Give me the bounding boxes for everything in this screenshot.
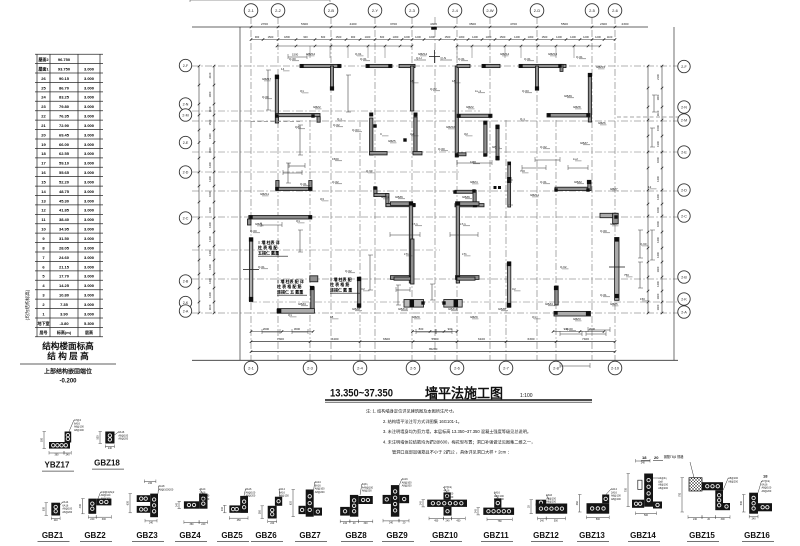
svg-text:1100: 1100 xyxy=(656,110,660,116)
svg-text:柱 表 格 配: 柱 表 格 配 xyxy=(258,244,277,250)
wall z1 xyxy=(374,187,377,197)
floor elevation table xyxy=(35,53,103,55)
svg-text:1900: 1900 xyxy=(208,91,212,97)
axis bubble 2-B xyxy=(324,4,338,18)
svg-text:2-C: 2-C xyxy=(183,216,189,220)
svg-text:2300: 2300 xyxy=(600,22,607,26)
svg-text:72.90: 72.90 xyxy=(59,123,70,128)
svg-text:GBZ9: GBZ9 xyxy=(564,94,572,98)
section GBZ6 xyxy=(268,506,277,519)
svg-text:1400: 1400 xyxy=(514,35,520,39)
svg-text:66.00: 66.00 xyxy=(59,142,70,147)
column blob xyxy=(409,276,413,280)
wall corridor corner V xyxy=(613,213,619,224)
svg-text:3.000: 3.000 xyxy=(84,293,95,298)
svg-text:360: 360 xyxy=(190,523,195,526)
svg-text:2-W: 2-W xyxy=(486,8,494,13)
column blob xyxy=(330,86,334,90)
svg-text:21: 21 xyxy=(41,123,46,128)
column blob xyxy=(414,113,418,117)
svg-text:1100: 1100 xyxy=(607,35,613,39)
svg-text:1400: 1400 xyxy=(208,292,212,298)
tongue cap L xyxy=(410,300,415,307)
svg-text:41.85: 41.85 xyxy=(59,208,70,213)
svg-text:3.000: 3.000 xyxy=(84,245,95,250)
svg-text:GBZ11: GBZ11 xyxy=(530,193,539,197)
svg-text:3.000: 3.000 xyxy=(84,151,95,156)
column blob xyxy=(473,203,477,207)
column blob xyxy=(373,186,376,189)
svg-text:Q-61: Q-61 xyxy=(355,52,362,56)
column blob xyxy=(249,215,252,218)
wall mid stub A xyxy=(370,152,388,155)
svg-text:≡ 墙 柱表 详: ≡ 墙 柱表 详 xyxy=(258,239,280,245)
svg-text:Q-61: Q-61 xyxy=(258,265,265,269)
svg-text:12: 12 xyxy=(648,185,652,189)
section GBZ1 xyxy=(51,503,60,516)
column blob xyxy=(453,190,456,193)
svg-text:1300: 1300 xyxy=(459,35,465,39)
svg-text:240: 240 xyxy=(343,522,348,525)
svg-text:1100: 1100 xyxy=(208,106,212,112)
wall z3r xyxy=(473,190,476,207)
svg-text:结 构 层 高: 结 构 层 高 xyxy=(47,350,89,361)
svg-text:21.15: 21.15 xyxy=(59,264,70,269)
svg-text:34.95: 34.95 xyxy=(59,227,70,232)
svg-text:1200: 1200 xyxy=(415,35,421,39)
svg-text:48.75: 48.75 xyxy=(59,189,70,194)
svg-text:2-1: 2-1 xyxy=(248,365,255,370)
svg-text:900: 900 xyxy=(255,35,260,39)
svg-text:2. 结构墙平法注写方式详图集 16G101-1。: 2. 结构墙平法注写方式详图集 16G101-1。 xyxy=(383,418,462,425)
svg-text:15: 15 xyxy=(41,179,46,184)
axis bubble 2-K xyxy=(678,293,690,305)
top chain 3 partial xyxy=(277,45,412,47)
svg-text:C2: C2 xyxy=(512,287,516,291)
svg-text:500: 500 xyxy=(740,501,743,506)
svg-text:2-1: 2-1 xyxy=(248,8,255,13)
svg-text:1500: 1500 xyxy=(656,125,660,131)
svg-text:GBZ17: GBZ17 xyxy=(262,77,272,81)
svg-text:240: 240 xyxy=(66,454,71,457)
svg-text:1000: 1000 xyxy=(404,35,410,39)
svg-text:1400: 1400 xyxy=(656,176,660,182)
svg-text:GBZ6: GBZ6 xyxy=(462,195,470,199)
GBZ15 upper leader xyxy=(690,462,694,478)
svg-text:2-3: 2-3 xyxy=(307,365,314,370)
wall stub5 xyxy=(560,64,566,67)
svg-text:7400: 7400 xyxy=(582,337,589,341)
svg-text:GBZ6: GBZ6 xyxy=(255,531,277,540)
svg-text:Q1: Q1 xyxy=(296,219,300,223)
svg-text:1300: 1300 xyxy=(528,35,534,39)
wall left-unit west vertical upper xyxy=(275,75,278,123)
svg-text:柱 表 格 筋: 柱 表 格 筋 xyxy=(330,281,349,287)
svg-text:23: 23 xyxy=(41,104,46,109)
column blob xyxy=(409,201,413,205)
svg-text:1400: 1400 xyxy=(570,35,576,39)
svg-text:GBZ12: GBZ12 xyxy=(306,52,316,56)
svg-text:450: 450 xyxy=(456,519,461,522)
svg-text:3.000: 3.000 xyxy=(84,66,95,71)
svg-text:GBZ5: GBZ5 xyxy=(221,531,243,540)
svg-text:柱 表 格 配 筋: 柱 表 格 配 筋 xyxy=(277,283,301,289)
svg-text:屋面2: 屋面2 xyxy=(38,56,49,62)
svg-text:GBZ9: GBZ9 xyxy=(470,315,478,319)
svg-text:GBZ6: GBZ6 xyxy=(395,195,403,199)
svg-text:240: 240 xyxy=(446,519,451,522)
svg-text:52.20: 52.20 xyxy=(59,179,70,184)
svg-text:Α8@200: Α8@200 xyxy=(494,498,504,501)
svg-text:Q1: Q1 xyxy=(288,313,292,317)
svg-text:90.15: 90.15 xyxy=(59,76,70,81)
column blob xyxy=(388,64,391,67)
svg-text:1500: 1500 xyxy=(500,35,506,39)
svg-text:GBZ9: GBZ9 xyxy=(386,531,408,540)
wall Q4 xyxy=(482,64,500,67)
svg-text:连描仁 戴 重: 连描仁 戴 重 xyxy=(330,286,352,292)
svg-text:1400: 1400 xyxy=(208,278,212,284)
svg-text:GBZ16: GBZ16 xyxy=(446,125,456,129)
column blob xyxy=(588,73,592,77)
svg-text:1500: 1500 xyxy=(336,35,342,39)
svg-text:450: 450 xyxy=(237,519,242,522)
svg-text:6600: 6600 xyxy=(383,337,390,341)
column blob xyxy=(495,156,499,160)
svg-text:Q-61: Q-61 xyxy=(576,55,583,59)
wall west exterior xyxy=(249,238,252,302)
section GBZ11 xyxy=(483,508,514,515)
column blob xyxy=(535,86,539,90)
bottom dimension chains xyxy=(251,331,313,333)
axis bubble 2-Y xyxy=(368,4,382,18)
svg-text:2-3: 2-3 xyxy=(409,8,416,13)
svg-text:3.000: 3.000 xyxy=(84,217,95,222)
svg-text:240: 240 xyxy=(752,517,757,520)
svg-text:1400: 1400 xyxy=(656,266,660,272)
svg-text:10.80: 10.80 xyxy=(59,293,70,298)
wall core-right-top vertical xyxy=(455,66,458,157)
svg-text:GBZ7: GBZ7 xyxy=(610,222,618,226)
axis bubble 2-7 xyxy=(499,361,513,375)
svg-text:3.000: 3.000 xyxy=(84,114,95,119)
column blob xyxy=(275,114,278,117)
wall small piece xyxy=(310,276,318,282)
svg-text:Q-61: Q-61 xyxy=(458,57,465,61)
svg-text:Α8@200: Α8@200 xyxy=(62,511,72,514)
section GBZ13 xyxy=(587,503,610,514)
svg-text:GBZ13: GBZ13 xyxy=(579,531,605,540)
svg-text:2700: 2700 xyxy=(261,22,268,26)
wall Q1 top-left xyxy=(300,64,341,67)
column blob xyxy=(456,276,460,280)
svg-text:700: 700 xyxy=(520,169,525,173)
svg-text:GBZ10: GBZ10 xyxy=(398,307,408,311)
svg-text:1400: 1400 xyxy=(656,252,660,258)
column blob xyxy=(457,114,460,117)
interior dims xyxy=(289,165,305,167)
axis bubble 2-A xyxy=(678,306,690,318)
svg-text:1400: 1400 xyxy=(208,222,212,228)
svg-text:Q-62: Q-62 xyxy=(430,87,437,91)
svg-text:1600: 1600 xyxy=(656,207,660,213)
svg-text:层高: 层高 xyxy=(84,329,93,335)
svg-text:500: 500 xyxy=(596,518,601,521)
axis bubble 2-8 xyxy=(549,361,563,375)
svg-text:400: 400 xyxy=(79,504,82,509)
svg-text:钢筋Γ6|4 规格: 钢筋Γ6|4 规格 xyxy=(664,454,685,459)
svg-text:26: 26 xyxy=(41,76,46,81)
svg-text:2-2: 2-2 xyxy=(275,8,282,13)
svg-text:93.750: 93.750 xyxy=(58,66,71,71)
svg-text:6100: 6100 xyxy=(478,337,485,341)
svg-text:1400: 1400 xyxy=(365,35,371,39)
column blob xyxy=(507,303,511,307)
svg-text:Α8@200: Α8@200 xyxy=(362,490,372,493)
svg-text:2100: 2100 xyxy=(208,72,212,78)
svg-text:Q-61: Q-61 xyxy=(524,57,531,61)
svg-text:240: 240 xyxy=(270,522,275,525)
svg-text:1400: 1400 xyxy=(656,194,660,200)
axis bubble 2-C xyxy=(678,210,690,222)
svg-text:2-B: 2-B xyxy=(328,8,335,13)
wall corridor corner H xyxy=(600,213,617,217)
top dimension chain xyxy=(192,26,648,28)
svg-text:7.35: 7.35 xyxy=(60,302,69,307)
wall Q5 T-top xyxy=(519,64,562,67)
svg-text:墙平法施工图: 墙平法施工图 xyxy=(425,385,503,401)
wall z2 xyxy=(374,194,388,197)
column blob xyxy=(586,188,589,191)
svg-text:300: 300 xyxy=(721,518,726,521)
svg-text:2600: 2600 xyxy=(263,327,270,331)
svg-text:38.40: 38.40 xyxy=(59,217,70,222)
svg-text:GBZ16: GBZ16 xyxy=(744,531,770,540)
left dimension chains xyxy=(198,66,200,313)
core wall right xyxy=(456,203,459,283)
svg-text:600: 600 xyxy=(127,501,130,506)
axis bubble 2-B xyxy=(179,275,191,287)
svg-text:LT1: LT1 xyxy=(462,252,467,256)
svg-text:240: 240 xyxy=(90,518,95,521)
wall vertical room divider xyxy=(484,121,487,156)
svg-text:Q-62: Q-62 xyxy=(332,180,339,184)
svg-text:Q-60: Q-60 xyxy=(289,57,296,61)
svg-text:C: C xyxy=(380,132,382,136)
column blob xyxy=(275,75,279,79)
core top stub L xyxy=(391,202,413,206)
svg-text:240: 240 xyxy=(176,502,179,507)
column blob xyxy=(586,311,590,315)
svg-text:1300: 1300 xyxy=(208,133,212,139)
svg-text:GBZ11: GBZ11 xyxy=(260,192,269,196)
svg-text:C2: C2 xyxy=(361,287,365,291)
column blob xyxy=(507,177,511,183)
svg-text:1400: 1400 xyxy=(472,35,478,39)
column blob xyxy=(615,294,619,298)
svg-text:Q2: Q2 xyxy=(464,132,468,136)
svg-text:1600: 1600 xyxy=(656,221,660,227)
wall int vert mid-left xyxy=(358,277,361,307)
svg-text:Q-62: Q-62 xyxy=(333,123,340,127)
wall step xyxy=(317,117,320,123)
svg-text:Q3: Q3 xyxy=(320,197,324,201)
wall stem xyxy=(331,66,334,87)
svg-text:3. 未注明墙身均为剪力墙，本层标高 13.350~37: 3. 未注明墙身均为剪力墙，本层标高 13.350~37.350 混凝土强度等级… xyxy=(383,428,531,435)
svg-text:管洞口底部加强筋且不小于 2鍆12 ，具体详见洞: 管洞口底部加强筋且不小于 2鍆12 ，具体详见洞口大样 + 2cm ： xyxy=(392,449,511,456)
svg-text:14: 14 xyxy=(281,67,285,71)
svg-text:19: 19 xyxy=(41,142,46,147)
column blob xyxy=(547,113,550,116)
svg-text:18: 18 xyxy=(452,79,456,83)
svg-text:Q-60: Q-60 xyxy=(640,242,647,246)
column blob xyxy=(357,304,360,307)
svg-text:300: 300 xyxy=(364,522,369,525)
column blob xyxy=(275,187,279,191)
svg-text:380: 380 xyxy=(259,509,262,514)
svg-text:500: 500 xyxy=(97,435,100,440)
column blob xyxy=(311,114,314,117)
svg-text:3.000: 3.000 xyxy=(84,104,95,109)
axis bubble 2-6 xyxy=(608,4,622,18)
svg-text:240: 240 xyxy=(641,462,646,465)
wall RL bottom xyxy=(554,311,591,316)
svg-text:连描仁 五 戴重: 连描仁 五 戴重 xyxy=(277,288,303,294)
svg-text:Q-60: Q-60 xyxy=(438,147,445,151)
svg-text:Q-60: Q-60 xyxy=(600,229,607,233)
section GBZ8 xyxy=(350,495,358,517)
wall int vert mid-right xyxy=(507,262,510,308)
svg-text:5300: 5300 xyxy=(301,22,308,26)
wall z4r xyxy=(455,204,484,207)
svg-text:7300: 7300 xyxy=(277,337,284,341)
section YBZ17 xyxy=(49,442,70,449)
svg-text:地下室: 地下室 xyxy=(38,320,50,326)
svg-text:1600: 1600 xyxy=(429,35,435,39)
svg-text:20: 20 xyxy=(41,132,46,137)
svg-text:GBZ3: GBZ3 xyxy=(573,317,581,321)
svg-text:4300: 4300 xyxy=(430,22,437,26)
svg-text:Α8@200: Α8@200 xyxy=(246,495,256,498)
svg-text:10: 10 xyxy=(41,227,46,232)
svg-text:3.000: 3.000 xyxy=(84,189,95,194)
column blob xyxy=(366,64,369,67)
svg-text:13.350~37.350: 13.350~37.350 xyxy=(330,388,393,400)
svg-text:1300: 1300 xyxy=(393,35,399,39)
svg-text:-0.200: -0.200 xyxy=(59,379,77,385)
svg-text:Α8@200: Α8@200 xyxy=(74,429,84,432)
column blob xyxy=(249,297,253,301)
axis bubble 2-6 xyxy=(450,361,464,375)
svg-text:2-D: 2-D xyxy=(681,188,687,192)
svg-text:2-F: 2-F xyxy=(681,65,687,69)
svg-text:1100: 1100 xyxy=(208,304,212,310)
svg-text:Q1: Q1 xyxy=(300,89,304,93)
svg-text:3.000: 3.000 xyxy=(84,264,95,269)
svg-text:GBZ4: GBZ4 xyxy=(470,180,478,184)
column blob xyxy=(554,311,557,314)
wall end-down stub xyxy=(248,219,252,225)
svg-text:500: 500 xyxy=(554,519,559,522)
column blob xyxy=(587,180,591,184)
svg-text:240: 240 xyxy=(108,447,113,450)
svg-text:83.25: 83.25 xyxy=(59,95,70,100)
svg-text:20: 20 xyxy=(654,455,659,460)
svg-text:780: 780 xyxy=(498,520,503,523)
svg-text:GBZ8: GBZ8 xyxy=(498,307,506,311)
column blob xyxy=(300,64,303,67)
svg-text:2-7: 2-7 xyxy=(503,365,510,370)
svg-text:2-6: 2-6 xyxy=(612,8,619,13)
axis bubble 2-A xyxy=(179,305,191,317)
wall L-int vertical xyxy=(311,287,314,313)
svg-text:5.300: 5.300 xyxy=(84,321,95,326)
wall east exterior xyxy=(615,238,619,301)
column blob xyxy=(472,189,475,192)
svg-text:2300: 2300 xyxy=(622,22,629,26)
svg-text:LT1: LT1 xyxy=(404,252,409,256)
core bottom stub R xyxy=(456,276,480,280)
svg-text:28.05: 28.05 xyxy=(59,245,70,250)
svg-text:2-D: 2-D xyxy=(183,170,189,174)
svg-text:2-Y: 2-Y xyxy=(372,8,379,13)
svg-text:55.65: 55.65 xyxy=(59,170,70,175)
svg-text:-3.80: -3.80 xyxy=(59,321,69,326)
svg-text:17.70: 17.70 xyxy=(59,274,70,279)
svg-text:Q-63: Q-63 xyxy=(352,128,359,132)
svg-text:GBZ3: GBZ3 xyxy=(298,302,306,306)
svg-text:1500: 1500 xyxy=(445,35,451,39)
right dimension chains xyxy=(647,66,649,313)
wall mid vertical A xyxy=(370,118,373,155)
axis bubble 2-1 xyxy=(244,361,258,375)
section GBZ7 xyxy=(306,490,314,517)
wall L right-unit xyxy=(555,187,591,190)
svg-text:Α8@200: Α8@200 xyxy=(728,480,738,483)
wall RL vert xyxy=(555,286,558,305)
svg-text:4400: 4400 xyxy=(350,22,357,26)
svg-text:22: 22 xyxy=(41,114,46,119)
column blob xyxy=(519,64,522,67)
svg-text:750: 750 xyxy=(624,273,629,277)
wall mid stub B xyxy=(413,152,422,155)
column blob xyxy=(373,124,376,127)
svg-text:1400: 1400 xyxy=(656,281,660,287)
wall stub hall xyxy=(457,153,466,156)
column blob xyxy=(483,153,486,156)
column blob xyxy=(277,309,282,314)
svg-text:Q-60: Q-60 xyxy=(250,229,257,233)
svg-text:600: 600 xyxy=(321,35,326,39)
svg-text:3500: 3500 xyxy=(469,22,476,26)
column blob xyxy=(308,215,311,218)
column blob xyxy=(249,237,253,241)
svg-text:45.30: 45.30 xyxy=(59,198,70,203)
svg-text:GBZ14: GBZ14 xyxy=(418,52,428,56)
svg-text:1400: 1400 xyxy=(208,176,212,182)
core top stub R xyxy=(456,202,480,206)
column blob xyxy=(554,286,558,290)
svg-text:900: 900 xyxy=(303,35,308,39)
svg-text:2-M: 2-M xyxy=(182,113,188,117)
svg-text:1400: 1400 xyxy=(208,236,212,242)
svg-text:240: 240 xyxy=(201,523,206,526)
svg-text:标高(m): 标高(m) xyxy=(56,329,72,335)
svg-text:五描仁 戴重: 五描仁 戴重 xyxy=(258,249,279,255)
section GBZ5 xyxy=(229,505,240,512)
svg-text:Q-61: Q-61 xyxy=(360,57,367,61)
svg-text:Q-1: Q-1 xyxy=(337,117,342,121)
